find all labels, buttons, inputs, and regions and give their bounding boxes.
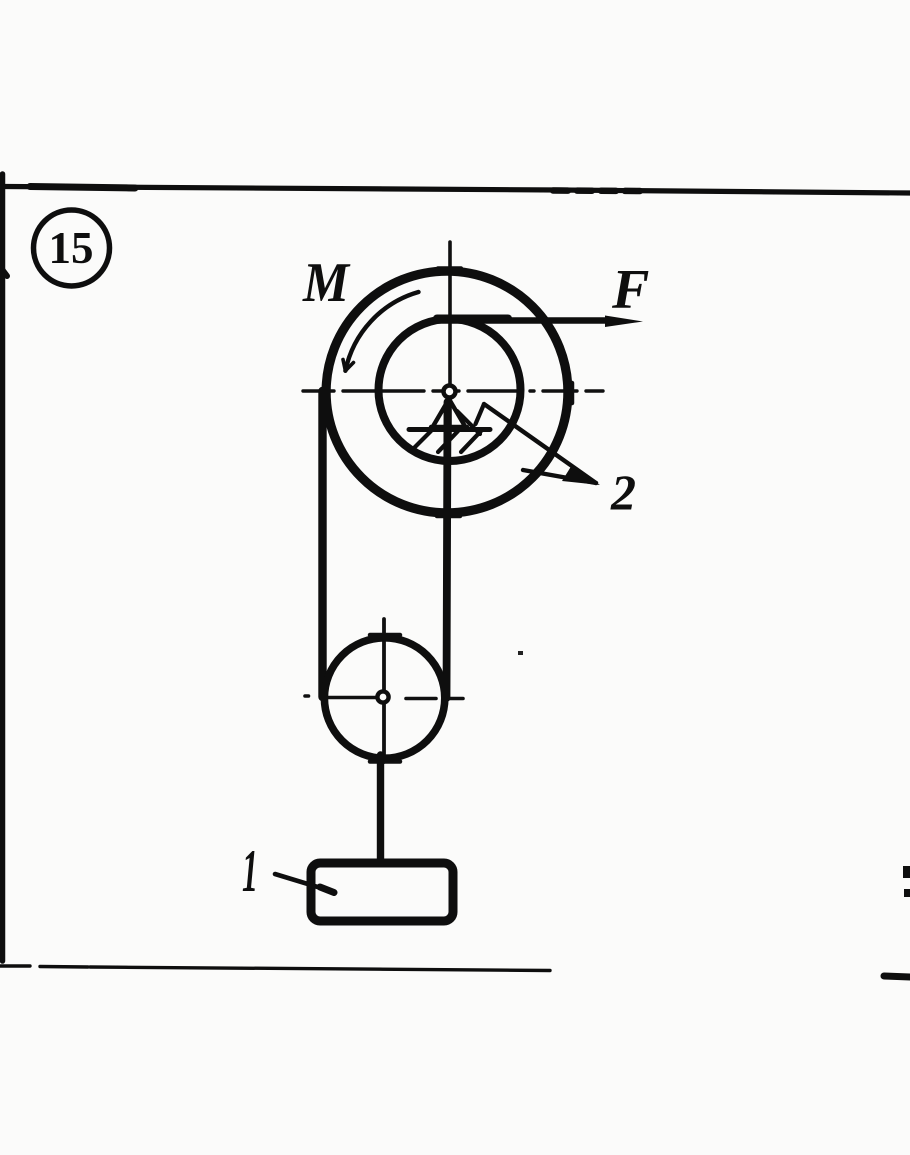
svg-text:F: F <box>611 259 649 321</box>
svg-text:2: 2 <box>610 464 636 520</box>
svg-text:M: M <box>302 252 351 314</box>
svg-text:15: 15 <box>49 223 94 273</box>
svg-text:1: 1 <box>242 838 258 904</box>
